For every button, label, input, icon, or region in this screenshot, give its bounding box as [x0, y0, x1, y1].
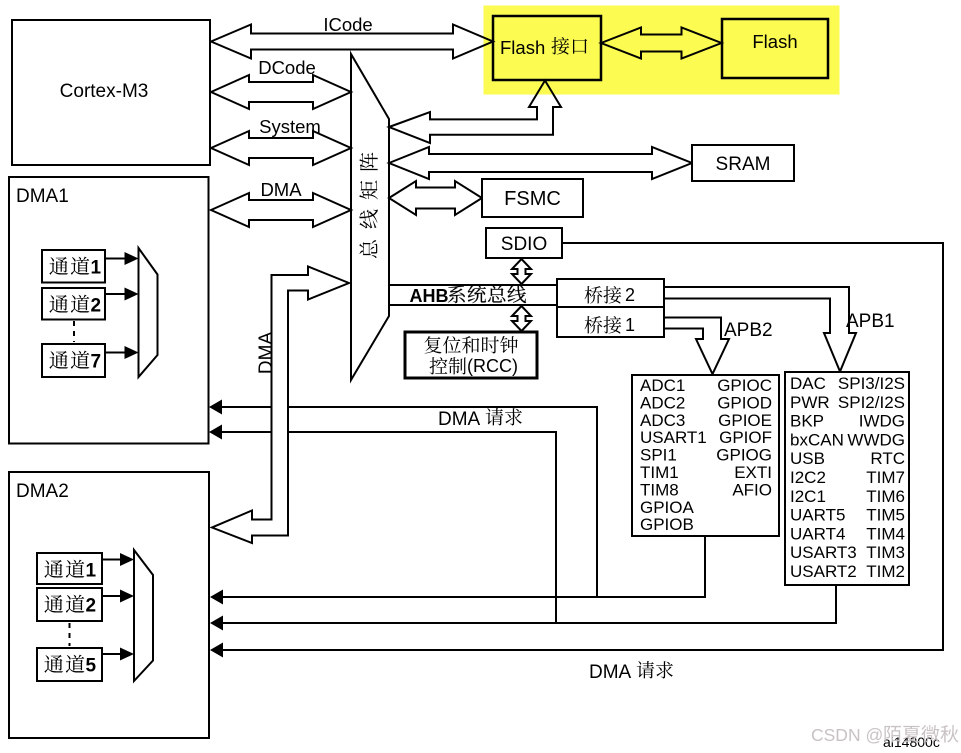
svg-text:DMA1: DMA1 — [16, 186, 69, 207]
svg-text:BKP: BKP — [790, 412, 824, 431]
svg-text:System: System — [259, 116, 321, 137]
svg-text:TIM2: TIM2 — [866, 562, 905, 581]
svg-text:TIM7: TIM7 — [866, 468, 905, 487]
svg-text:DMA: DMA — [256, 332, 277, 375]
svg-text:2: 2 — [91, 296, 102, 317]
svg-text:FSMC: FSMC — [504, 188, 561, 210]
svg-text:SRAM: SRAM — [716, 154, 771, 175]
svg-text:USART3: USART3 — [790, 543, 857, 562]
svg-text:1: 1 — [91, 258, 102, 279]
svg-text:SPI1: SPI1 — [640, 446, 677, 465]
svg-text:TIM6: TIM6 — [866, 487, 905, 506]
svg-text:I2C1: I2C1 — [790, 487, 826, 506]
svg-text:TIM4: TIM4 — [866, 524, 905, 543]
svg-text:GPIOG: GPIOG — [716, 446, 772, 465]
svg-text:USART2: USART2 — [790, 562, 857, 581]
svg-text:ADC2: ADC2 — [640, 393, 685, 412]
svg-text:GPIOF: GPIOF — [719, 428, 772, 447]
svg-text:WWDG: WWDG — [847, 430, 905, 449]
svg-text:I2C2: I2C2 — [790, 468, 826, 487]
svg-text:2: 2 — [86, 596, 97, 617]
svg-text:GPIOE: GPIOE — [718, 411, 772, 430]
svg-text:5: 5 — [86, 656, 97, 677]
svg-text:AHB: AHB — [410, 286, 449, 306]
svg-text:EXTI: EXTI — [734, 463, 772, 482]
svg-text:APB2: APB2 — [724, 320, 773, 341]
svg-text:Flash: Flash — [500, 37, 545, 58]
svg-text:bxCAN: bxCAN — [790, 430, 844, 449]
svg-text:DAC: DAC — [790, 374, 826, 393]
svg-text:APB1: APB1 — [846, 311, 895, 332]
svg-text:PWR: PWR — [790, 393, 830, 412]
svg-text:1: 1 — [86, 561, 97, 582]
svg-text:ADC1: ADC1 — [640, 376, 685, 395]
svg-text:SPI3/I2S: SPI3/I2S — [838, 374, 905, 393]
svg-text:ICode: ICode — [323, 14, 372, 35]
svg-text:Cortex-M3: Cortex-M3 — [60, 81, 149, 102]
svg-text:GPIOD: GPIOD — [717, 393, 772, 412]
svg-text:ADC3: ADC3 — [640, 411, 685, 430]
svg-text:SPI2/I2S: SPI2/I2S — [838, 393, 905, 412]
svg-text:Flash: Flash — [752, 31, 797, 52]
svg-text:UART5: UART5 — [790, 506, 845, 525]
svg-text:GPIOC: GPIOC — [717, 376, 772, 395]
svg-text:RTC: RTC — [870, 449, 905, 468]
svg-text:GPIOB: GPIOB — [640, 515, 694, 534]
svg-text:GPIOA: GPIOA — [640, 498, 695, 517]
svg-text:UART4: UART4 — [790, 524, 845, 543]
svg-text:(RCC): (RCC) — [467, 356, 518, 376]
svg-text:USB: USB — [790, 449, 825, 468]
svg-text:SDIO: SDIO — [501, 234, 547, 255]
svg-text:7: 7 — [91, 352, 102, 373]
svg-text:DMA: DMA — [438, 409, 481, 430]
svg-text:DMA: DMA — [260, 179, 302, 200]
svg-text:TIM3: TIM3 — [866, 543, 905, 562]
svg-text:DCode: DCode — [258, 57, 316, 78]
svg-text:1: 1 — [625, 315, 635, 335]
svg-text:USART1: USART1 — [640, 428, 707, 447]
svg-text:IWDG: IWDG — [859, 412, 905, 431]
svg-text:TIM5: TIM5 — [866, 506, 905, 525]
svg-text:AFIO: AFIO — [732, 480, 772, 499]
svg-text:DMA2: DMA2 — [16, 481, 69, 502]
svg-text:TIM8: TIM8 — [640, 480, 679, 499]
svg-text:2: 2 — [625, 285, 635, 305]
svg-text:TIM1: TIM1 — [640, 463, 679, 482]
svg-text:DMA: DMA — [589, 662, 632, 683]
svg-text:CSDN @: CSDN @ — [811, 725, 883, 745]
